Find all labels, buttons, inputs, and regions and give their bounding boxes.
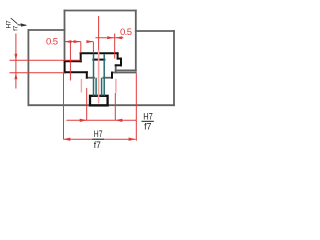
leader arrow to left edge (dark) [18, 24, 27, 26]
bottom dim2 line [63, 138, 135, 140]
wire right slot wall [120, 59, 122, 66]
left ext horizontal upper [10, 59, 81, 61]
red dimensions [10, 34, 137, 141]
ext vertical x115.3 [114, 93, 116, 120]
wire step under tall block right [116, 69, 136, 71]
arrow [129, 138, 136, 141]
arrow at teal ext [86, 40, 93, 43]
left ext horizontal lower [10, 72, 65, 74]
wire thread inner left [95, 78, 97, 96]
dim 0.5 top-left line [64, 41, 93, 43]
ext vertical x63.3 [63, 73, 65, 140]
wire left block top edge [28, 29, 64, 31]
extension line x114.7 [114, 34, 116, 59]
extension line x70.4 [69, 42, 71, 81]
wire slot floor left [65, 71, 87, 73]
arrow [115, 119, 122, 122]
wire thread end bar [93, 59, 104, 61]
arrow up to lower line [14, 73, 17, 79]
left vertical dim line [15, 34, 17, 89]
wire flange left edge [80, 53, 82, 61]
bolt head [90, 96, 108, 106]
wire right wing top edge [136, 30, 174, 32]
arrow pointing right [107, 36, 114, 39]
T-slot black profile [65, 53, 121, 77]
arrow [80, 119, 87, 122]
svg-text:f7: f7 [12, 25, 19, 31]
wire right step horizontal [118, 58, 121, 60]
wire stem right edge [111, 73, 113, 78]
centerline upper [98, 16, 100, 50]
wire left slot wall [64, 61, 66, 72]
svg-text:0.5: 0.5 [120, 27, 132, 38]
svg-text:H7: H7 [94, 129, 103, 139]
wire tall block top edge [65, 10, 136, 12]
wire flange top [81, 52, 118, 54]
wire right step vertical [115, 65, 117, 72]
text H7/f7 bottom center [94, 129, 103, 150]
pink aux line right [115, 79, 117, 93]
ext vertical x136.3 [135, 74, 137, 141]
fraction bar right [142, 120, 154, 122]
extension line x93.4 [92, 42, 94, 53]
arrow down to upper line [14, 54, 17, 60]
wire shank right [103, 54, 105, 96]
svg-text:0.5: 0.5 [46, 37, 58, 48]
wire left step horizontal [65, 60, 81, 62]
fraction bar center [92, 138, 104, 140]
wire stem left edge [86, 72, 88, 77]
wire tall block right edge [135, 11, 137, 71]
svg-text:f7: f7 [94, 140, 101, 150]
text H7/f7 rotated left [6, 18, 20, 31]
bottom dim1 line [66, 119, 136, 121]
arrow right at flange ext [74, 40, 81, 43]
wire slot bottom left [87, 77, 94, 79]
bolt shank thread lines (teal) [94, 54, 105, 96]
extension line x80.8 [80, 42, 82, 54]
pink aux line left [80, 79, 82, 93]
wire plate top right segment [112, 72, 136, 74]
arrow left inward [64, 40, 71, 43]
wire left outer edge [27, 30, 29, 105]
wire right outer edge [173, 31, 175, 105]
svg-text:H7: H7 [143, 112, 153, 122]
arrow pointing left [115, 36, 122, 39]
dim 0.5 top-right line [95, 37, 123, 39]
text H7/f7 bottom right [143, 112, 153, 132]
wire thread inner right [101, 78, 103, 96]
ext vertical x86.7 [86, 88, 88, 120]
wire shank left [93, 54, 95, 96]
wire flange right edge [117, 53, 119, 58]
part outlines (gray) [28, 11, 174, 106]
arrow [63, 138, 70, 141]
wire right slot ledge [116, 64, 121, 66]
wire bottom edge [28, 104, 174, 106]
wire tall block left edge [64, 11, 66, 62]
centerline lower [98, 50, 100, 104]
wire slot bottom right [103, 77, 112, 79]
svg-text:f7: f7 [144, 122, 152, 132]
